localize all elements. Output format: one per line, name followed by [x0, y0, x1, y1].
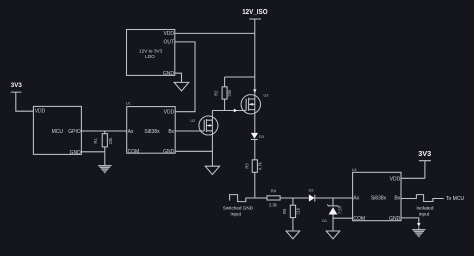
LDO block 12V to 3V3 [127, 30, 175, 77]
svg-text:VDD: VDD [35, 108, 46, 114]
ground (iso) under LDO [174, 82, 189, 91]
svg-text:Isolated: Isolated [416, 206, 433, 212]
resistor R1 20k [93, 131, 113, 165]
svg-text:3V3: 3V3 [418, 149, 431, 158]
svg-text:GND: GND [163, 149, 175, 155]
svg-text:R3: R3 [245, 163, 250, 169]
svg-text:GND: GND [70, 150, 82, 156]
diode D2 [309, 189, 315, 202]
svg-text:R1: R1 [93, 138, 98, 144]
wire MCU GND [81, 151, 104, 153]
svg-text:R5: R5 [282, 208, 287, 214]
svg-text:Si838x: Si838x [371, 195, 387, 201]
svg-text:VDD: VDD [390, 177, 401, 183]
svg-text:OUT: OUT [163, 39, 174, 45]
svg-text:3V3: 3V3 [11, 82, 23, 89]
svg-text:R2: R2 [213, 90, 218, 96]
svg-text:20k: 20k [108, 137, 113, 145]
svg-text:Input: Input [230, 211, 241, 217]
svg-text:21k: 21k [295, 207, 300, 215]
svg-text:7.5V: 7.5V [337, 205, 342, 214]
resistor R3 4.7k [245, 160, 263, 173]
svg-text:U3: U3 [264, 94, 269, 98]
svg-text:U2: U2 [190, 119, 195, 123]
resistor R2 20k [213, 87, 232, 111]
wire U2 source down [211, 135, 213, 166]
svg-text:Bx: Bx [168, 129, 174, 135]
svg-text:D3: D3 [259, 135, 264, 139]
op-isolator U1 Si838x box [126, 102, 175, 156]
svg-text:D1: D1 [322, 219, 327, 223]
net port To MCU (isolated output) [401, 195, 464, 218]
svg-text:Bx: Bx [394, 195, 400, 201]
wire U1 Bx to U2 gate [175, 130, 204, 132]
svg-text:LDO: LDO [145, 54, 155, 59]
svg-text:MCU: MCU [52, 129, 64, 135]
svg-text:COM: COM [128, 149, 140, 155]
net 3V3 (right power flag) [418, 149, 431, 178]
svg-text:GPIO: GPIO [68, 129, 81, 135]
wire U4 VDD to 3V3 [401, 177, 425, 179]
svg-text:U4: U4 [352, 168, 357, 172]
resistor R4 3.3k [267, 189, 280, 208]
ground (iso) under R5 [286, 231, 300, 239]
net 3V3 (left power flag) [11, 82, 34, 111]
arrow on U3 gate wire [234, 109, 238, 113]
wire 12V rail down [254, 33, 256, 94]
svg-text:D2: D2 [309, 189, 314, 193]
svg-text:Ax: Ax [128, 129, 134, 135]
ground (iso) under D1 [326, 231, 340, 239]
net port Switched GND Input [223, 195, 255, 218]
wire LDO GND [175, 73, 182, 82]
ground (hatched, MCU side) under U4 [412, 223, 426, 238]
svg-text:Ax: Ax [353, 195, 359, 201]
wire bottom node to R4 [255, 197, 267, 199]
wire rail below U3 to D3 [254, 114, 256, 133]
svg-text:Si838x: Si838x [144, 129, 160, 135]
ground (hatched, MCU side) under R1 [98, 165, 112, 173]
svg-text:U1: U1 [126, 102, 131, 106]
svg-text:COM: COM [353, 216, 365, 222]
transistor U2 (NMOS in circle) [190, 116, 218, 135]
svg-text:To MCU: To MCU [446, 196, 464, 202]
svg-text:3.3k: 3.3k [269, 202, 278, 207]
svg-text:12V to 3V3: 12V to 3V3 [139, 49, 163, 54]
wire U4 GND down [401, 218, 419, 223]
wire R2 top to rail [225, 77, 255, 87]
wire D3 to R3 [254, 140, 256, 160]
wire U1 GND to U2 source [175, 150, 212, 152]
net 12V_ISO power flag [242, 9, 268, 33]
wire LDO VDD to 12V_ISO rail [175, 32, 255, 34]
resistor R5 21k (pull-down) [282, 198, 301, 231]
svg-text:input: input [419, 211, 430, 217]
svg-text:12V_ISO: 12V_ISO [242, 9, 268, 16]
svg-text:4.7k: 4.7k [258, 161, 263, 170]
wire D1 node to U4 COM [333, 217, 353, 219]
wire R3 to bottom node [254, 172, 256, 198]
diode D3 [251, 133, 264, 140]
svg-text:R4: R4 [271, 189, 277, 194]
svg-text:GND: GND [163, 71, 175, 77]
svg-text:20k: 20k [227, 89, 232, 97]
wire R4 to D2 [280, 197, 309, 199]
ground (iso) under U2 [205, 166, 219, 174]
MCU block [33, 106, 81, 155]
svg-text:Switched GND: Switched GND [223, 206, 254, 211]
wire D2 to U4 Ax [315, 197, 353, 199]
wire GPIO to Ax [81, 130, 126, 132]
svg-text:VDD: VDD [163, 31, 174, 37]
svg-text:GND: GND [389, 216, 401, 222]
wire U2 drain to U3 gate node [212, 111, 246, 117]
op-isolator U4 Si838x box [352, 168, 401, 222]
zener diode D1 7.5V [322, 198, 342, 231]
wire LDO OUT to U1 VDD [175, 42, 195, 112]
svg-text:VDD: VDD [164, 110, 175, 116]
transistor U3 (PMOS in circle, on 12V rail) [241, 89, 268, 114]
